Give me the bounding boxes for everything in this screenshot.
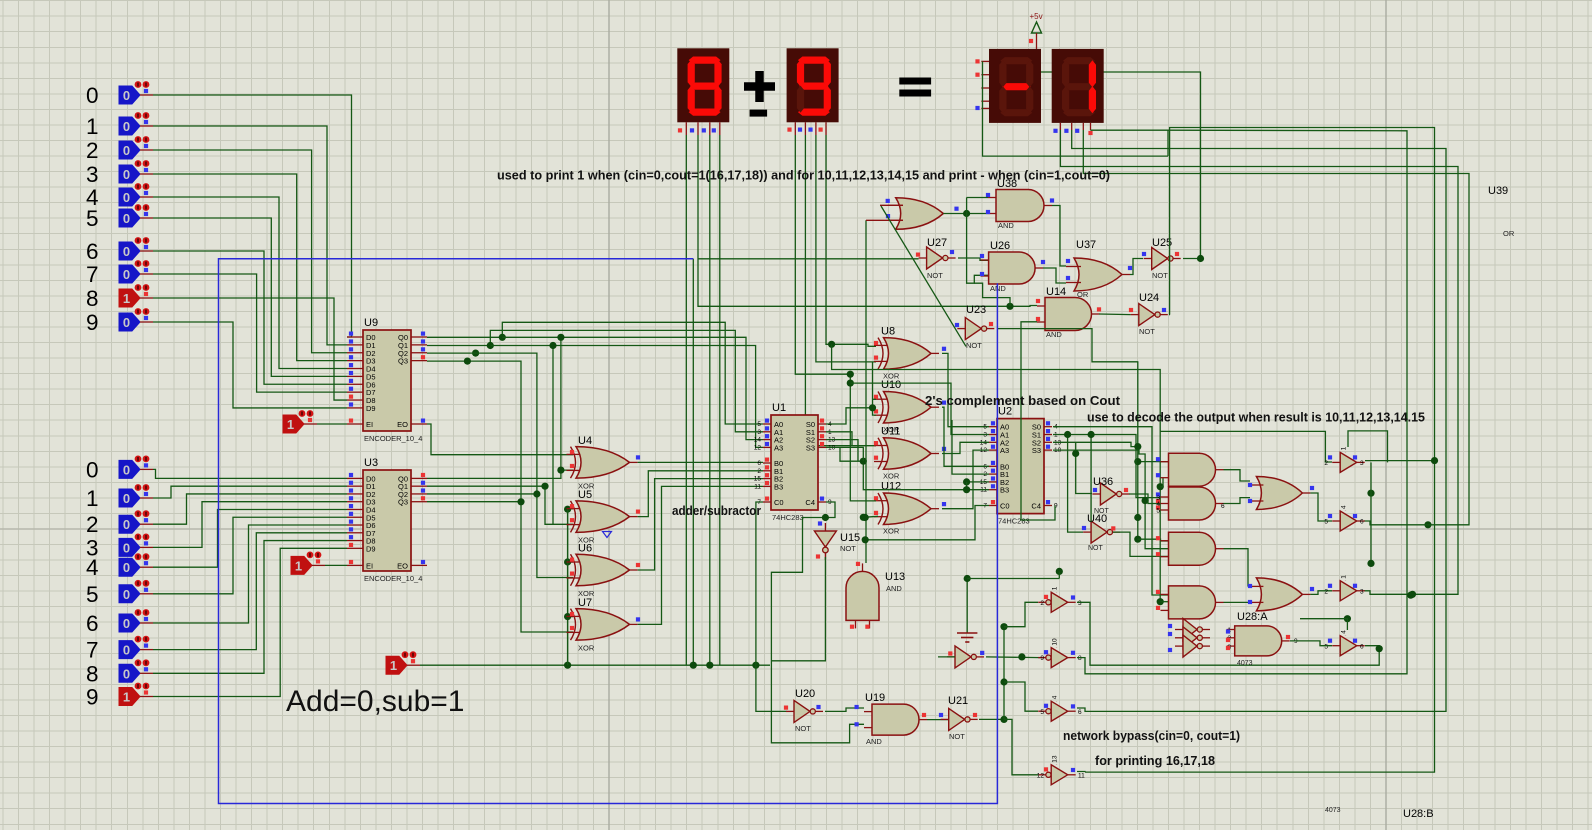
svg-text:2: 2: [757, 468, 761, 475]
wire and3 out: [1224, 549, 1251, 586]
7-segment display digit4 (1): [1052, 49, 1104, 135]
wire U20 to U19: [825, 708, 864, 711]
wire nb1 input: [1004, 602, 1038, 626]
wire toggle 4 to U3 D4: [153, 509, 347, 567]
wire U15 out down: [771, 557, 825, 661]
wire U9 EO to U4 inA: [427, 424, 573, 455]
svg-text:0: 0: [123, 491, 130, 506]
wire Q0 row branch down to U4: [560, 337, 562, 470]
wire U6 out to U1 B2: [638, 479, 763, 570]
annotation 2s complement: [925, 393, 1121, 408]
wire rail 872: [873, 362, 877, 415]
xor gate U4: [567, 435, 641, 491]
svg-text:EO: EO: [397, 561, 408, 570]
svg-text:5: 5: [86, 582, 99, 607]
not gates before U28A: [1168, 619, 1210, 658]
buffer buf1: [1324, 446, 1364, 472]
svg-text:11: 11: [754, 483, 761, 490]
svg-text:XOR: XOR: [883, 472, 900, 481]
power +5v symbol: [1029, 12, 1043, 49]
logic state input toggle 6 (top group): [86, 237, 153, 264]
wire U23 out to decode rail: [997, 329, 1138, 362]
svg-text:7: 7: [86, 262, 99, 287]
svg-text:1: 1: [295, 558, 302, 573]
junction u14line: [1006, 303, 1013, 310]
svg-text:4: 4: [1341, 505, 1348, 509]
wire rail stub U2 B2: [967, 481, 989, 483]
wire S1 branch b: [1090, 435, 1092, 522]
and gate U26: [980, 240, 1045, 293]
svg-text:U40: U40: [1087, 513, 1107, 525]
xor gate U10: [874, 379, 946, 434]
not gate U20: [784, 688, 823, 733]
wire U27 out to U26: [958, 258, 988, 260]
wire d4 pin3 net: [1083, 130, 1469, 525]
svg-text:0: 0: [123, 267, 130, 282]
wire toggle 9 to U3 D9: [153, 548, 347, 696]
7-segment display digit1 (8): [677, 48, 729, 135]
junction or1 out: [1367, 490, 1374, 497]
wire toggle 7 to U9 D7: [153, 274, 347, 392]
svg-text:A3: A3: [1000, 446, 1009, 455]
wire nb3 input: [1004, 682, 1038, 711]
and gate U13 vertical: [846, 562, 905, 629]
svg-text:+5v: +5v: [1030, 12, 1043, 21]
label U28:B: [1403, 808, 1434, 820]
wire add/sub rail up to XOR gates: [567, 509, 569, 665]
wire display1 pin a drop: [685, 135, 687, 665]
svg-text:C4: C4: [805, 498, 815, 507]
svg-text:NOT: NOT: [966, 341, 982, 350]
buffer buf2: [1324, 505, 1364, 531]
svg-text:0: 0: [123, 616, 130, 631]
svg-text:4: 4: [86, 555, 99, 580]
wire notg out to inverter column: [986, 656, 1041, 659]
wire U14 out to U24: [1099, 313, 1131, 316]
wire stub and4 in2: [1160, 601, 1168, 603]
svg-text:1: 1: [390, 658, 397, 673]
buffer buf3: [1324, 575, 1364, 601]
junction farright addsub: [752, 662, 759, 669]
or gate U37: [1066, 239, 1132, 299]
junction d1c: [706, 662, 713, 669]
wire vertical 966: [966, 482, 968, 490]
svg-text:B3: B3: [774, 482, 783, 491]
junction r1160a: [1157, 483, 1164, 490]
svg-text:11: 11: [1078, 772, 1085, 779]
wire U1 S1 right: [826, 432, 852, 446]
junction d2d: [828, 341, 835, 348]
svg-text:2: 2: [86, 138, 99, 163]
wire display3 left bus: [983, 61, 1169, 156]
junction U2 B3: [963, 486, 970, 493]
svg-text:4: 4: [1052, 695, 1059, 699]
svg-text:0: 0: [123, 190, 130, 205]
svg-text:C0: C0: [1000, 502, 1010, 511]
junction rail U7: [564, 613, 571, 620]
logic state input toggle 4 (bottom group): [86, 553, 153, 580]
wire U40 input from U2 S1: [1068, 435, 1083, 533]
annotation network bypass: [1063, 728, 1240, 743]
svg-text:U24: U24: [1139, 292, 1159, 304]
svg-text:EI: EI: [366, 420, 373, 429]
wire addsub to U1 C0: [756, 502, 763, 665]
svg-text:U10: U10: [881, 379, 901, 391]
junction U21 rail: [1000, 716, 1007, 723]
svg-text:6: 6: [86, 611, 99, 636]
wire U36 out: [1129, 494, 1161, 504]
junction rail U6: [564, 558, 571, 565]
wire branch 865 to right: [865, 506, 989, 540]
svg-text:AND: AND: [998, 221, 1014, 230]
wire net130 to rail1407: [1077, 130, 1407, 674]
wire U4 out to U1 B0: [638, 461, 763, 463]
junction u36in: [1072, 450, 1079, 457]
svg-text:D9: D9: [366, 544, 376, 553]
svg-text:1: 1: [287, 417, 294, 432]
junction q1b: [541, 483, 548, 490]
wire U9 Q1 to U1 A1: [427, 330, 763, 431]
svg-text:U15: U15: [840, 532, 860, 544]
svg-text:5: 5: [1324, 643, 1328, 650]
wire 1059 vertical: [1058, 571, 1060, 578]
svg-text:1: 1: [86, 114, 99, 139]
svg-text:0: 0: [123, 211, 130, 226]
svg-text:D9: D9: [366, 404, 376, 413]
wire U2 S1 right: [1053, 435, 1161, 498]
junction 865b: [862, 536, 869, 543]
junction Q0 row branch: [557, 334, 564, 341]
wire U3 Q0 to U4 input B: [427, 470, 573, 478]
xor gate U6: [567, 543, 641, 599]
junction S3 rail: [1142, 497, 1149, 504]
junction Q2: [472, 350, 479, 357]
wire gnd horizontal: [967, 578, 1059, 580]
svg-text:U27: U27: [927, 237, 947, 249]
svg-text:ENCODER_10_4: ENCODER_10_4: [364, 574, 422, 583]
junction or-out/u38: [963, 210, 970, 217]
wire toggle 7 to U3 D7: [153, 533, 347, 650]
logic state input toggle 0 (top group): [86, 81, 153, 108]
svg-text:13: 13: [1052, 755, 1059, 763]
svg-text:0: 0: [123, 119, 130, 134]
label 4073 bottom: [1325, 807, 1341, 814]
xor gate U5: [567, 489, 641, 544]
origin marker (blue triangle) below U5: [603, 532, 612, 538]
wire U28A out to buf4: [1290, 641, 1332, 646]
xor gate U7: [567, 597, 641, 653]
logic state input toggle 8 (top group): [86, 284, 153, 311]
inverter nb3 (4049-style): [1038, 695, 1082, 721]
svg-text:B3: B3: [1000, 486, 1009, 495]
junction S2 rail: [1134, 443, 1141, 450]
wire buf1 enable hook: [1348, 431, 1388, 463]
junction B rail top: [860, 458, 867, 465]
not gate U15 vertical: [814, 521, 860, 560]
logic state input toggle 5 (bottom group): [86, 580, 153, 607]
junction buf4 net: [1376, 645, 1383, 652]
or gate decode or2: [1248, 578, 1314, 611]
wire U9 Q0 to U1 A0: [427, 322, 763, 424]
wire nb4 out net tail: [1077, 771, 1085, 774]
svg-text:9: 9: [86, 685, 99, 710]
wire U9 Q2 row to U6 inB: [427, 353, 573, 577]
junction 1004b: [1000, 678, 1007, 685]
wire U21 out to rail: [979, 718, 1004, 720]
wire 1347 net: [1300, 619, 1347, 630]
blue wire route: [219, 259, 998, 804]
wire U9 Q3 row to U7 inB: [427, 361, 573, 632]
wire display2 pin d drop to U8 inA: [826, 135, 876, 346]
svg-text:U23: U23: [966, 304, 986, 316]
svg-text:0: 0: [123, 560, 130, 575]
svg-text:U5: U5: [578, 489, 592, 501]
and gate U19: [855, 692, 928, 746]
svg-text:AND: AND: [866, 737, 882, 746]
wire buf1 out net: [1365, 460, 1435, 462]
wire rail stub U6 inA: [568, 561, 573, 563]
logic toggle 1 ADD/SUB control: [386, 651, 420, 674]
svg-text:U36: U36: [1093, 476, 1113, 488]
svg-text:U20: U20: [795, 688, 815, 700]
annotation top: [497, 168, 1110, 183]
svg-text:0: 0: [123, 88, 130, 103]
wire U12 inB: [863, 516, 878, 517]
svg-text:AND: AND: [1046, 330, 1062, 339]
wire U2 S2 right: [1053, 442, 1138, 446]
svg-text:1: 1: [1341, 446, 1348, 450]
svg-text:12: 12: [1037, 772, 1045, 779]
or gate decode or1: [1248, 477, 1314, 510]
svg-text:12: 12: [754, 444, 762, 451]
svg-text:U26: U26: [990, 240, 1010, 252]
not gate U24: [1129, 292, 1168, 336]
svg-text:U3: U3: [364, 457, 378, 469]
svg-text:6: 6: [1360, 519, 1364, 526]
svg-text:3: 3: [86, 162, 99, 187]
svg-text:1: 1: [123, 690, 130, 705]
wire d3 bus drop to buf2: [1091, 130, 1169, 156]
svg-text:0: 0: [123, 167, 130, 182]
svg-text:2: 2: [1040, 600, 1044, 607]
wire toggle 8 to U9 D8: [153, 298, 347, 400]
svg-text:U37: U37: [1076, 239, 1096, 251]
wire or out to U38 in2: [943, 213, 988, 215]
decoder and1: [1156, 453, 1224, 486]
wire U37 out to U25: [1130, 259, 1143, 275]
svg-text:NOT: NOT: [1152, 271, 1168, 280]
7-segment display digit2 (9): [787, 48, 839, 135]
wire display1 pin b drop to U14: [698, 135, 1037, 306]
wire toggle 5 to U3 D5: [153, 517, 347, 594]
annotation Add=0,sub=1: [286, 685, 465, 718]
svg-text:2: 2: [1324, 588, 1328, 595]
logic state input toggle 1 (top group): [86, 112, 153, 139]
logic state input toggle 5 (top group): [86, 204, 153, 231]
wire or1 out to buf2: [1310, 493, 1332, 521]
encoder U9 ENCODER_10_4: [347, 317, 427, 443]
logic state input toggle 0 (bottom group): [86, 456, 153, 483]
wire rail 1137 feed: [1092, 362, 1138, 539]
svg-text:0: 0: [86, 83, 99, 108]
not gate U23: [955, 304, 994, 350]
svg-text:U28:A: U28:A: [1237, 611, 1268, 623]
svg-text:4: 4: [1341, 630, 1348, 634]
svg-text:0: 0: [123, 462, 130, 477]
junction gnd rail: [964, 575, 971, 582]
svg-text:5: 5: [757, 421, 761, 428]
wire display2 pin a drop: [795, 135, 850, 374]
svg-text:1: 1: [86, 486, 99, 511]
svg-text:10: 10: [1052, 638, 1059, 646]
svg-text:0: 0: [123, 517, 130, 532]
svg-text:2: 2: [86, 512, 99, 537]
xor gate U12: [874, 481, 946, 536]
wire U10 out to U2 B0: [942, 407, 989, 466]
svg-text:2's complement based on Cout: 2's complement based on Cout: [925, 393, 1121, 408]
inverter nb2 (4049-style): [1038, 638, 1082, 668]
wire decode rail 1160 feed: [832, 344, 1161, 601]
wire rail to U2 B2/B3: [840, 447, 989, 489]
svg-text:U4: U4: [578, 435, 592, 447]
junction 1004a: [1000, 623, 1007, 630]
wire U19 to U21: [927, 719, 949, 721]
diagonal wire: [881, 206, 966, 346]
svg-text:U9: U9: [364, 317, 378, 329]
junction Q1 row branch: [549, 342, 556, 349]
svg-text:3: 3: [1360, 588, 1364, 595]
svg-text:U12: U12: [881, 481, 901, 493]
svg-text:U14: U14: [1046, 286, 1066, 298]
svg-text:C4: C4: [1031, 502, 1041, 511]
wire U1 C4 to U15: [771, 502, 864, 743]
svg-text:use to decode the output when: use to decode the output when result is …: [1087, 410, 1425, 425]
wire display1 pin d drop: [719, 135, 721, 665]
wire toggle 6 to U3 D6: [153, 525, 347, 623]
wire U24 out rail up and across: [1085, 128, 1435, 773]
label OR (U39): [1503, 229, 1515, 238]
and gate U14: [1036, 286, 1101, 339]
wire U1 S2 right: [826, 440, 858, 461]
logic state input toggle 9 (top group): [86, 308, 153, 335]
wire toggle 1 to U9 D1: [153, 126, 347, 345]
svg-text:6: 6: [1360, 643, 1364, 650]
junction buf1 net: [1431, 457, 1438, 464]
wire toggle 0 to U9 D0: [153, 95, 352, 337]
svg-text:U1: U1: [772, 402, 786, 414]
junction U15 input: [822, 514, 829, 521]
and gate U38: [986, 178, 1054, 230]
not gate U27: [916, 237, 956, 280]
label and2 pins: [1156, 495, 1225, 515]
wire toggle 8 to U3 D8: [153, 541, 347, 674]
wire U27 input: [698, 258, 919, 260]
svg-text:8: 8: [86, 286, 99, 311]
junction Q1: [487, 342, 494, 349]
wire U7 out to U1 B3: [638, 486, 763, 624]
wire U25 out up to displays: [1041, 72, 1201, 259]
junction buf2net: [1424, 521, 1431, 528]
wire into buf1: [1160, 431, 1332, 462]
svg-text:OR: OR: [1503, 229, 1515, 238]
svg-text:XOR: XOR: [578, 643, 595, 652]
junction r1160b: [1157, 598, 1164, 605]
svg-text:7: 7: [86, 638, 99, 663]
junction 865a: [862, 514, 869, 521]
wire into U13 right input: [865, 220, 867, 563]
equals symbol: [899, 81, 931, 93]
junction addsub rail bottom: [564, 662, 571, 669]
minus symbol under plus: [750, 110, 768, 117]
svg-text:15: 15: [754, 476, 762, 483]
svg-text:3: 3: [757, 429, 761, 436]
wire U3 EI: [325, 564, 347, 566]
wire rail850 branch to U2 A1: [850, 383, 989, 434]
svg-text:NOT: NOT: [949, 732, 965, 741]
junction U25 out: [1197, 255, 1204, 262]
svg-text:5: 5: [86, 206, 99, 231]
svg-text:2: 2: [1324, 460, 1328, 467]
logic toggle 1 driving U3 EI: [291, 552, 325, 575]
svg-text:6: 6: [757, 460, 761, 467]
svg-text:5: 5: [1040, 709, 1044, 716]
encoder U3 ENCODER_10_4: [347, 457, 427, 583]
plus symbol: [744, 71, 775, 102]
wire U38 out to U37: [1052, 206, 1066, 267]
svg-text:0: 0: [123, 643, 130, 658]
junction r1137b: [1134, 514, 1141, 521]
xor gate U11: [874, 426, 946, 481]
wire blue-net drop: [692, 259, 694, 665]
junction 1021: [1018, 653, 1025, 660]
svg-text:U28:B: U28:B: [1403, 808, 1434, 820]
svg-text:U39: U39: [1488, 185, 1508, 197]
xor gate U8: [874, 325, 946, 380]
svg-text:for printing 16,17,18: for printing 16,17,18: [1095, 753, 1215, 768]
junction rail850 a: [847, 371, 854, 378]
svg-text:0: 0: [123, 315, 130, 330]
not gate U36: [1092, 476, 1129, 515]
svg-text:XOR: XOR: [883, 527, 900, 536]
wire U5 out to U1 B1: [638, 471, 763, 517]
svg-text:AND: AND: [886, 584, 902, 593]
svg-text:network bypass(cin=0, cout=1): network bypass(cin=0, cout=1): [1063, 728, 1240, 743]
and gate U28:A: [1226, 611, 1298, 667]
annotation adder/subractor: [672, 503, 761, 518]
wire rail segment: [567, 509, 569, 665]
logic state input toggle 3 (top group): [86, 160, 153, 187]
wire U2 S0 right: [1053, 427, 1169, 595]
svg-text:NOT: NOT: [1139, 327, 1155, 336]
svg-text:U8: U8: [881, 325, 895, 337]
logic state input toggle 6 (bottom group): [86, 609, 153, 636]
wire U2 S3 right: [1053, 450, 1169, 549]
decoder and4: [1156, 586, 1224, 619]
junction rail U5: [564, 506, 571, 513]
wire toggle 6 to U9 D6: [153, 251, 347, 384]
junction or2 out: [1407, 592, 1414, 599]
wire vertical into U26 staircase: [967, 198, 988, 284]
label U39: [1488, 185, 1508, 197]
junction rail850 b: [847, 380, 854, 387]
wire U12 out to U2 A3: [942, 450, 989, 509]
wire display1 pin c drop: [709, 135, 711, 665]
adder U1 74HC283: [754, 402, 836, 522]
junction 1371a: [1367, 560, 1374, 567]
junction Q0: [499, 334, 506, 341]
not gate U25: [1142, 237, 1181, 280]
junction 872: [869, 404, 876, 411]
